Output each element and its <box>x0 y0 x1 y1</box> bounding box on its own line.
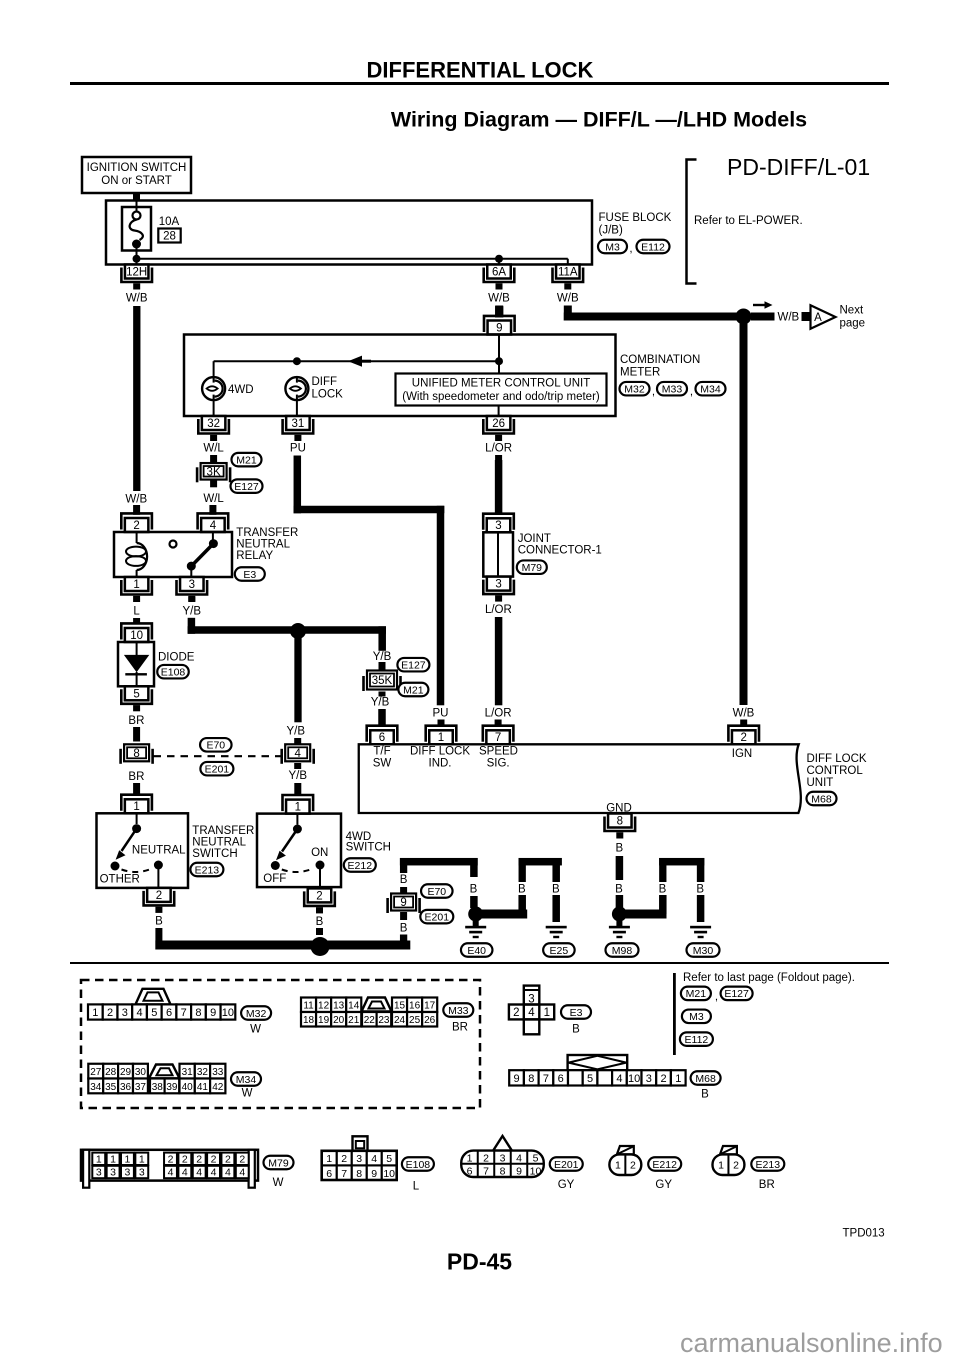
connector 6 on control unit <box>367 726 398 745</box>
wire E40 dot to E25 riser <box>476 895 528 919</box>
svg-text:OTHER: OTHER <box>100 874 140 886</box>
arrow on meter internal wire <box>348 356 371 367</box>
unified meter control unit box <box>396 374 607 406</box>
connector tag E25 <box>543 943 575 957</box>
svg-text:SW: SW <box>373 758 392 770</box>
svg-text:SWITCH: SWITCH <box>346 842 391 854</box>
wire W/B from 6A to meter connector 9 <box>495 306 503 318</box>
label L/OR <box>485 443 512 455</box>
inline connector 4 <box>282 744 314 764</box>
footer TPD013 <box>843 1228 885 1240</box>
connector tag E201 face <box>550 1157 583 1191</box>
svg-text:E212: E212 <box>348 860 373 872</box>
svg-text:E127: E127 <box>401 660 426 672</box>
connector tag E127 <box>231 479 263 493</box>
svg-text:24: 24 <box>394 1015 406 1026</box>
svg-text:TPD013: TPD013 <box>843 1228 885 1240</box>
connector 2 on relay <box>121 513 152 532</box>
label Y/B above 4WD switch <box>289 770 308 782</box>
svg-text:3: 3 <box>495 520 501 532</box>
svg-text:M33: M33 <box>662 384 683 396</box>
connector tag M21 <box>232 453 262 467</box>
OFF label <box>263 873 286 885</box>
svg-text:,: , <box>715 991 718 1003</box>
svg-text:3: 3 <box>500 1153 506 1165</box>
svg-text:B: B <box>659 883 667 895</box>
svg-text:3K: 3K <box>207 466 221 478</box>
label B at E25 <box>552 883 560 895</box>
svg-text:9: 9 <box>516 1166 522 1178</box>
svg-text:B: B <box>615 843 623 855</box>
junction dot at fuse output <box>133 255 141 266</box>
svg-text:6: 6 <box>467 1166 473 1178</box>
label B at E40 <box>470 883 478 895</box>
connector tag E108 <box>157 665 189 679</box>
svg-text:W/B: W/B <box>557 293 579 305</box>
svg-text:27: 27 <box>90 1067 102 1078</box>
connector tag E112 note <box>680 1032 713 1046</box>
wire Y/B into 4WD switch <box>294 783 301 796</box>
connector 2 under transfer neutral switch <box>144 888 175 913</box>
stub into IGN connector <box>740 720 747 727</box>
dashed outline box <box>81 980 480 1108</box>
svg-text:W: W <box>250 1024 261 1036</box>
svg-text:6: 6 <box>326 1168 332 1180</box>
svg-text:4: 4 <box>182 1167 188 1179</box>
svg-text:CONTROL: CONTROL <box>807 765 864 777</box>
label B under 4WD switch <box>316 916 324 928</box>
svg-text:9: 9 <box>210 1007 216 1019</box>
svg-text:2: 2 <box>316 890 322 902</box>
svg-text:B: B <box>701 1089 709 1101</box>
connector 3 on joint connector <box>483 514 514 533</box>
svg-text:M79: M79 <box>268 1157 289 1169</box>
connector tag E127 note <box>721 987 753 1001</box>
svg-text:DIFF LOCK: DIFF LOCK <box>807 753 867 765</box>
svg-text:E40: E40 <box>467 945 486 957</box>
transfer neutral relay box <box>114 532 232 577</box>
wire B down to E25 ground <box>552 895 560 922</box>
connector tag M79 face <box>264 1156 294 1189</box>
DIODE label <box>158 652 195 664</box>
JOINT CONNECTOR-1 label <box>518 533 602 557</box>
junction dot M98 <box>612 907 627 922</box>
separator rule above connector faces <box>70 962 889 964</box>
connector 1 under relay <box>121 577 152 602</box>
connector tag M3 <box>598 240 627 254</box>
ignition switch box <box>82 157 191 193</box>
stub into relay pin 2 <box>133 505 140 515</box>
svg-text:32: 32 <box>197 1067 209 1078</box>
svg-text:1: 1 <box>92 1007 98 1019</box>
svg-text:31: 31 <box>292 418 305 430</box>
svg-text:B: B <box>615 883 623 895</box>
svg-text:4: 4 <box>210 520 217 532</box>
svg-text:5: 5 <box>133 688 139 700</box>
svg-text:PD-DIFF/L-01: PD-DIFF/L-01 <box>727 154 870 180</box>
svg-text:31: 31 <box>182 1067 194 1078</box>
svg-text:26: 26 <box>492 418 505 430</box>
connector tag E201 left <box>200 762 233 776</box>
junction dot W/B bus <box>736 309 752 325</box>
connector face E3 <box>509 986 554 1035</box>
label L/OR above SPEED SIG <box>485 708 512 720</box>
svg-text:L/OR: L/OR <box>485 604 512 616</box>
svg-text:40: 40 <box>182 1082 194 1093</box>
svg-text:RELAY: RELAY <box>236 550 273 562</box>
wire BR to inline connector 8 <box>133 727 140 742</box>
refer to last page note <box>673 972 855 1055</box>
svg-text:W/B: W/B <box>488 293 510 305</box>
connector 1 on transfer neutral switch <box>121 795 152 814</box>
connector face M32 <box>88 989 235 1020</box>
svg-text:B: B <box>400 923 408 935</box>
wire Y/B from relay 3 elbow right <box>188 597 386 651</box>
svg-text:JOINT: JOINT <box>518 533 551 545</box>
svg-text:4: 4 <box>516 1153 522 1165</box>
svg-text:T/F: T/F <box>373 746 390 758</box>
svg-text:5: 5 <box>386 1153 392 1165</box>
label W/B above relay pin 2 <box>125 494 147 506</box>
inline connector 3K <box>197 463 230 482</box>
label BR below 8 <box>128 771 144 783</box>
svg-text:4WD: 4WD <box>228 384 254 396</box>
svg-text:B: B <box>400 874 408 886</box>
svg-text:,: , <box>629 243 632 255</box>
connector 8 under control unit <box>605 814 636 839</box>
svg-text:IGN: IGN <box>732 748 752 760</box>
inline connector 8 <box>121 744 153 764</box>
svg-text:FUSE BLOCK: FUSE BLOCK <box>599 212 672 224</box>
connector tag E70 <box>200 738 232 752</box>
connector tag M3 note <box>682 1010 711 1024</box>
svg-text:A: A <box>814 312 822 324</box>
svg-text:8: 8 <box>617 816 623 828</box>
connector tag M33 face <box>443 1003 473 1033</box>
svg-text:E201: E201 <box>554 1159 579 1171</box>
svg-text:7: 7 <box>341 1168 347 1180</box>
refer bracket <box>687 160 803 284</box>
label B at M98 <box>615 883 623 895</box>
svg-text:M79: M79 <box>522 562 543 574</box>
diff lock control unit box <box>359 744 801 813</box>
stub into SPEED SIG <box>495 720 502 727</box>
svg-text:L: L <box>133 606 140 618</box>
svg-text:4: 4 <box>528 1007 535 1019</box>
connector tag M21 note <box>681 987 711 1001</box>
svg-text:B: B <box>316 916 324 928</box>
wire riser up and over to E25 <box>519 858 562 882</box>
connector 5 under diode <box>121 686 152 711</box>
connector face E108 <box>322 1136 397 1180</box>
svg-text:OFF: OFF <box>263 873 286 885</box>
svg-text:8: 8 <box>133 748 139 760</box>
svg-text:UNIT: UNIT <box>807 777 834 789</box>
label W/B under 6A <box>488 293 510 305</box>
svg-text:SWITCH: SWITCH <box>192 848 237 860</box>
fuse 10A symbol <box>122 201 151 259</box>
svg-text:4: 4 <box>239 1167 245 1179</box>
svg-text:,: , <box>652 386 655 398</box>
diagram title Wiring Diagram - DIFF/L -/LHD Models <box>391 108 807 132</box>
wire L/OR down to SPEED SIG <box>495 617 503 705</box>
svg-text:E213: E213 <box>195 864 220 876</box>
svg-text:4: 4 <box>196 1167 202 1179</box>
svg-text:4: 4 <box>371 1153 377 1165</box>
svg-text:Next: Next <box>840 305 864 317</box>
svg-text:IGNITION SWITCH: IGNITION SWITCH <box>87 162 187 174</box>
connector face M33 <box>301 998 437 1027</box>
label B at M30 riser <box>659 883 667 895</box>
svg-text:36: 36 <box>120 1082 132 1093</box>
svg-text:37: 37 <box>135 1082 147 1093</box>
svg-text:1: 1 <box>615 1160 621 1172</box>
svg-text:11: 11 <box>303 1001 314 1012</box>
fuse block box <box>106 201 592 265</box>
label B below inline 9 <box>400 923 408 935</box>
connector 4 on relay <box>198 513 229 532</box>
relay switch arm <box>187 532 218 577</box>
svg-text:B: B <box>518 883 526 895</box>
svg-text:Y/B: Y/B <box>183 606 202 618</box>
svg-text:B: B <box>470 883 478 895</box>
stub below inline 9 <box>400 912 407 920</box>
svg-text:3: 3 <box>139 1167 145 1179</box>
DIFF LOCK CONTROL UNIT label <box>807 753 867 789</box>
svg-text:W/L: W/L <box>203 493 224 505</box>
svg-text:15: 15 <box>394 1001 406 1012</box>
svg-text:DIFFERENTIAL LOCK: DIFFERENTIAL LOCK <box>367 58 594 83</box>
svg-text:3: 3 <box>110 1167 116 1179</box>
sheet code PD-DIFF/L-01 <box>727 154 870 180</box>
transfer neutral switch box <box>97 813 189 888</box>
svg-text:E70: E70 <box>427 886 446 898</box>
svg-text:2: 2 <box>341 1153 347 1165</box>
svg-text:6: 6 <box>558 1073 564 1085</box>
label B above inline 9 <box>400 874 408 886</box>
connector 10 on diode <box>121 623 152 642</box>
svg-text:2: 2 <box>630 1160 636 1172</box>
svg-text:B: B <box>155 916 163 928</box>
connector tag E112 <box>637 240 670 254</box>
svg-text:W/B: W/B <box>778 312 800 324</box>
stub into relay pin 4 <box>209 505 216 515</box>
junction dot ground bus <box>311 937 330 956</box>
svg-text:carmanualsonline.info: carmanualsonline.info <box>680 1328 943 1358</box>
svg-text:3: 3 <box>646 1073 652 1085</box>
label Y/B under relay 3 <box>183 606 202 618</box>
inline connector 9 <box>388 894 420 914</box>
comma <box>715 991 718 1003</box>
label L/OR below joint connector <box>485 604 512 616</box>
svg-text:4: 4 <box>211 1167 217 1179</box>
connector tag M68 <box>807 792 837 806</box>
relay fixed contact circle <box>170 541 177 548</box>
label Y/B above 35K <box>373 651 392 663</box>
svg-text:GY: GY <box>558 1179 575 1191</box>
wire W/B down right side to IGN <box>740 320 748 705</box>
connector 32 <box>198 416 229 441</box>
svg-text:M32: M32 <box>624 384 645 396</box>
svg-text:M21: M21 <box>403 684 424 696</box>
svg-text:5: 5 <box>151 1007 157 1019</box>
connector 3 under joint connector <box>483 577 514 602</box>
wire B switch to ground bus <box>155 928 162 950</box>
svg-text:UNIFIED METER CONTROL UNIT: UNIFIED METER CONTROL UNIT <box>412 378 590 390</box>
svg-text:20: 20 <box>333 1015 345 1026</box>
svg-text:10: 10 <box>383 1168 395 1180</box>
stub 3K down <box>210 480 217 487</box>
wire W/B from 11A to page-right bus <box>564 306 740 321</box>
svg-text:Refer to last page (Foldout pa: Refer to last page (Foldout page). <box>683 972 855 984</box>
svg-text:30: 30 <box>135 1067 147 1078</box>
svg-text:(J/B): (J/B) <box>599 225 623 237</box>
svg-text:PD-45: PD-45 <box>447 1249 512 1275</box>
joint connector-1 box <box>483 532 513 576</box>
svg-text:M3: M3 <box>689 1011 704 1023</box>
wire bus up to inline 9 <box>400 935 407 946</box>
svg-text:2: 2 <box>513 1007 519 1019</box>
connector tag M32 <box>620 382 650 396</box>
svg-text:TRANSFER: TRANSFER <box>192 825 254 837</box>
svg-text:8: 8 <box>356 1168 362 1180</box>
comma <box>629 243 632 255</box>
svg-text:35K: 35K <box>372 675 393 687</box>
wire PU from 31 down and right to DIFF LOCK IND <box>294 456 445 706</box>
svg-text:Y/B: Y/B <box>287 726 306 738</box>
ground symbol M98 <box>609 918 630 938</box>
svg-text:E3: E3 <box>570 1007 583 1019</box>
svg-text:1: 1 <box>544 1007 550 1019</box>
wire W/B from 12H down to relay <box>133 306 140 491</box>
diode box <box>118 642 154 686</box>
svg-text:BR: BR <box>452 1022 468 1034</box>
svg-text:18: 18 <box>303 1015 315 1026</box>
svg-text:7: 7 <box>483 1166 489 1178</box>
wire riser up and over to M30 <box>659 858 704 882</box>
svg-text:11A: 11A <box>558 267 578 279</box>
connector 31 <box>283 416 314 441</box>
svg-text:SIG.: SIG. <box>487 758 510 770</box>
label W/B under 11A <box>557 293 579 305</box>
FUSE BLOCK (J/B) label <box>599 212 672 237</box>
label PU <box>290 443 306 455</box>
connector 26 <box>483 416 514 441</box>
GND pin label <box>606 803 632 815</box>
label B at E25 riser <box>518 883 526 895</box>
svg-text:E127: E127 <box>234 481 259 493</box>
svg-text:SPEED: SPEED <box>479 746 518 758</box>
OTHER label <box>100 874 140 886</box>
svg-text:W/B: W/B <box>125 494 147 506</box>
label L <box>133 606 140 618</box>
svg-text:28: 28 <box>105 1067 117 1078</box>
svg-text:8: 8 <box>528 1073 534 1085</box>
svg-text:3: 3 <box>495 579 501 591</box>
ON label <box>311 847 328 859</box>
svg-text:Wiring Diagram — DIFF/L —/LHD: Wiring Diagram — DIFF/L —/LHD Models <box>391 108 807 132</box>
connector face M68 <box>509 1055 685 1086</box>
svg-text:42: 42 <box>212 1082 224 1093</box>
label B under GND <box>615 843 623 855</box>
svg-text:9: 9 <box>496 322 502 334</box>
svg-text:E112: E112 <box>641 241 665 253</box>
wire Y/B from junction down to inline connector 4 <box>294 631 301 722</box>
svg-text:12H: 12H <box>126 267 147 279</box>
stub above inline 4 <box>294 738 301 745</box>
svg-text:10: 10 <box>222 1007 234 1019</box>
svg-text:28: 28 <box>163 231 176 243</box>
svg-text:(With speedometer and odo/trip: (With speedometer and odo/trip meter) <box>402 391 600 403</box>
svg-text:2: 2 <box>168 1153 174 1165</box>
NEUTRAL label <box>132 845 186 857</box>
svg-text:34: 34 <box>90 1082 102 1093</box>
indicator lamp 4WD <box>202 377 253 400</box>
svg-text:M21: M21 <box>236 454 257 466</box>
connector tag E40 <box>461 943 493 957</box>
svg-text:L/OR: L/OR <box>485 443 512 455</box>
svg-text:35: 35 <box>105 1082 117 1093</box>
indicator lamp DIFF LOCK <box>285 376 343 401</box>
label W/L <box>203 443 224 455</box>
svg-text:Y/B: Y/B <box>373 651 392 663</box>
svg-text:25: 25 <box>409 1015 421 1026</box>
svg-text:3: 3 <box>356 1153 362 1165</box>
svg-text:2: 2 <box>660 1073 666 1085</box>
stub ignition switch to fuse block <box>133 193 140 201</box>
svg-text:22: 22 <box>364 1015 376 1026</box>
stub B to bus dot <box>316 928 323 935</box>
connector tag E212 at switch <box>344 858 376 872</box>
svg-text:E108: E108 <box>161 667 186 679</box>
connector tag E70 right <box>421 884 453 898</box>
svg-text:9: 9 <box>371 1168 377 1180</box>
label W/B next page <box>778 312 800 324</box>
connector tag M30 <box>687 943 720 957</box>
transfer neutral switch contacts <box>111 813 163 888</box>
svg-text:page: page <box>840 318 866 330</box>
connector tag E213 at switch <box>190 863 223 877</box>
connector tag E201 right <box>420 910 453 924</box>
svg-text:Y/B: Y/B <box>289 770 308 782</box>
svg-text:PU: PU <box>290 443 306 455</box>
comma <box>652 386 655 398</box>
wire W/B to next page arrow <box>751 313 775 321</box>
connector 1 on 4WD switch <box>283 795 314 814</box>
svg-text:33: 33 <box>212 1067 224 1078</box>
COMBINATION METER label <box>620 354 700 379</box>
svg-text:1: 1 <box>438 732 444 744</box>
svg-text:1: 1 <box>96 1153 102 1165</box>
DIFF LOCK IND pin label <box>410 746 470 770</box>
svg-text:1: 1 <box>125 1153 131 1165</box>
svg-text:9: 9 <box>400 897 406 909</box>
svg-text:M33: M33 <box>448 1005 469 1017</box>
SPEED SIG pin label <box>479 746 518 770</box>
svg-text:2: 2 <box>196 1153 202 1165</box>
junction dot at 6A branch <box>495 255 503 263</box>
junction dot meter internal above DIFF LOCK lamp <box>293 357 301 365</box>
label W/B under 12H <box>126 293 148 305</box>
svg-text:5: 5 <box>587 1073 593 1085</box>
wire elbow from inline 9 to E40 drop <box>400 858 478 877</box>
connector 12H <box>121 265 152 290</box>
svg-text:1: 1 <box>295 801 301 813</box>
wire B down to M98 dot <box>616 895 624 908</box>
connector 7 on control unit <box>483 726 514 745</box>
connector face E212 <box>609 1146 681 1191</box>
svg-text:3: 3 <box>125 1167 131 1179</box>
